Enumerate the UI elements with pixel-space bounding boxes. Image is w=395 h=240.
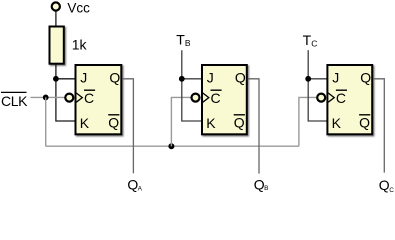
wire TB node to J input of U2 [182,78,202,80]
svg-text:B: B [264,185,268,192]
U1 C overline [84,89,95,91]
svg-text:T: T [303,32,312,48]
svg-text:J: J [207,69,214,85]
wire node A down to K input of U1 [56,79,76,121]
wire TC input down to K input of U3 [308,50,327,121]
U3 clock bubble [317,94,325,102]
svg-text:C: C [311,39,317,49]
svg-text:K: K [332,115,342,131]
svg-text:Vcc: Vcc [67,0,90,15]
JK flip-flop U3 body [327,65,372,134]
svg-text:K: K [80,115,90,131]
wire clock rail [46,145,299,147]
node A junction dot [53,76,59,82]
svg-text:1k: 1k [72,36,88,52]
svg-text:Q: Q [235,70,246,86]
wire CLK to clock bubble of U1 [31,96,65,98]
svg-text:Q: Q [254,176,265,192]
CLK overline [1,91,27,93]
wire TB input down to K input of U2 [182,50,202,121]
U3 clock dynamic indicator triangle [328,93,334,102]
svg-text:Q: Q [234,114,245,130]
svg-text:Q: Q [360,70,371,86]
U3 C overline [336,89,347,91]
svg-text:C: C [211,90,221,106]
svg-text:CLK: CLK [1,93,28,109]
svg-text:K: K [206,115,216,131]
U2 clock dynamic indicator triangle [203,93,209,102]
wire node A to J input of U1 [56,78,76,80]
wire TC node to J input of U3 [308,78,327,80]
Vcc terminal circle [52,2,60,10]
node TC junction dot [305,76,311,82]
wire U2 Q output down to QB [248,79,259,174]
U3 Qbar overline [359,114,370,116]
svg-text:C: C [336,90,346,106]
node CLK junction dot [43,95,49,101]
svg-text:J: J [332,69,339,85]
svg-text:B: B [185,38,191,48]
wire CLK riser down to clock rail [45,97,47,146]
U2 C overline [211,89,222,91]
svg-text:T: T [176,32,185,48]
wire U3 Q output down to QC [373,79,384,173]
svg-text:Q: Q [109,70,120,86]
svg-text:Q: Q [108,114,119,130]
node TB junction dot [179,76,185,82]
svg-text:A: A [138,186,143,193]
wire clock rail up to clock bubble of U3 [299,97,317,146]
U1 clock dynamic indicator triangle [76,93,82,102]
wire U1 Q output down to QA [122,79,133,173]
svg-text:C: C [84,90,94,106]
svg-text:Q: Q [379,177,390,193]
wire resistor R1 to node A [55,65,57,79]
svg-text:Q: Q [359,114,370,130]
resistor R1 [50,27,64,64]
node clock rail junction dot [168,143,174,149]
U2 clock bubble [192,94,200,102]
wire Vcc terminal to resistor R1 [55,11,57,26]
U2 Qbar overline [234,114,245,116]
svg-text:C: C [389,187,394,193]
JK flip-flop U1 body [76,65,122,134]
U1 clock bubble [65,94,73,102]
U1 Qbar overline [108,114,119,116]
JK flip-flop U2 body [202,65,247,134]
svg-text:J: J [80,69,87,85]
wire clock rail up to clock bubble of U2 [171,97,190,146]
